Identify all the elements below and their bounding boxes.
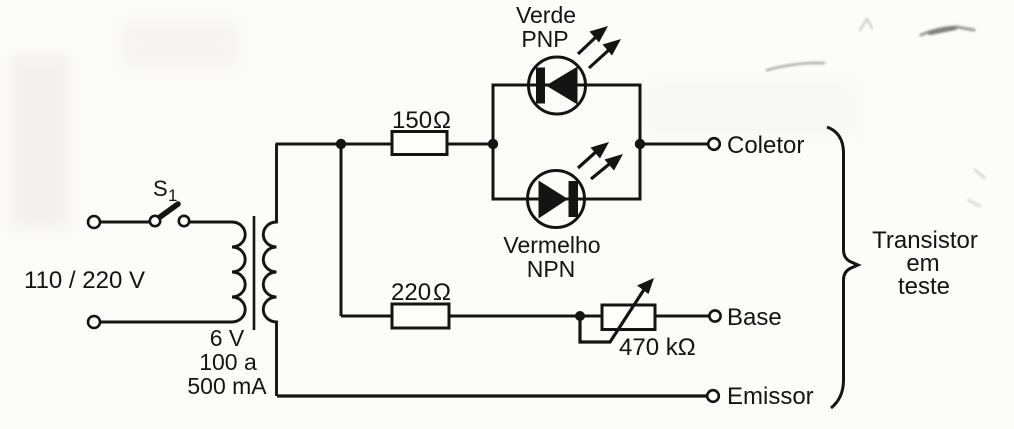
label Transistor em teste (872, 227, 978, 300)
bleed-through smudge 2 (767, 63, 824, 70)
resistor 220 ohm (392, 304, 449, 328)
LED D1 (Verde) circle (529, 57, 586, 114)
svg-text:PNP: PNP (521, 26, 568, 52)
label Vermelho NPN (503, 232, 600, 282)
terminal Base (709, 310, 720, 321)
svg-text:150Ω: 150Ω (392, 107, 451, 134)
wire from bottom-left terminal to transformer primary bottom (100, 321, 232, 324)
svg-text:Vermelho: Vermelho (503, 232, 600, 258)
svg-text:500 mA: 500 mA (187, 373, 267, 399)
wire from top-left terminal to switch (100, 221, 150, 224)
label S1 (153, 176, 177, 205)
svg-text:S: S (153, 176, 168, 201)
LED D2 anode bar (569, 181, 579, 217)
faint paper shading top-left (10, 20, 860, 230)
node junction on top rail (336, 139, 346, 149)
svg-text:6 V: 6 V (210, 325, 245, 351)
brace Transistor em teste (827, 127, 858, 408)
terminal Emissor (707, 390, 719, 402)
svg-text:Verde: Verde (516, 2, 576, 28)
LED D2 light arrow 2 (591, 154, 623, 179)
wire LED parallel branch right vertical (639, 85, 642, 199)
rheostat arrowhead (637, 278, 654, 294)
terminal Coletor (708, 138, 720, 150)
wire top rail from transformer to 150 ohm resistor (276, 143, 393, 146)
LED D2 triangle (539, 181, 569, 219)
label Verde PNP (516, 2, 576, 52)
wire top LED branch horizontal (492, 84, 642, 87)
label 6 V 100 a 500 mA (187, 325, 267, 399)
wire vertical branch from node to 220 ohm branch (340, 144, 343, 316)
LED D1 light arrow 1 (578, 26, 608, 54)
node junction before rheostat (575, 311, 585, 321)
wire from 150 ohm resistor to LED branch (447, 143, 493, 146)
svg-text:220Ω: 220Ω (391, 279, 451, 306)
wire bottom rail to Emissor terminal (277, 394, 707, 397)
bleed-through smudge 1 (921, 27, 974, 35)
svg-text:NPN: NPN (527, 256, 576, 282)
svg-text:Base: Base (727, 304, 782, 331)
svg-text:100 a: 100 a (199, 349, 257, 375)
wire from rheostat to Base terminal (655, 315, 709, 318)
switch S1 (150, 204, 189, 226)
wire from switch to transformer primary top (189, 221, 232, 224)
node junction at LED branch right (635, 139, 645, 149)
transformer T1 primary winding (232, 222, 245, 322)
wire LED parallel branch left vertical (492, 85, 495, 199)
wire from vertical branch to 220 ohm resistor (341, 315, 392, 318)
LED D2 light arrow 1 (578, 142, 609, 168)
svg-text:Emissor: Emissor (727, 383, 814, 410)
bleed-through smudge 3 (860, 19, 872, 30)
svg-text:110 / 220 V: 110 / 220 V (24, 267, 145, 294)
LED D1 light arrow 2 (589, 39, 621, 68)
wire bottom LED branch horizontal (492, 198, 642, 201)
wire from LED branch to Coletor terminal (640, 143, 707, 146)
node junction at LED branch left (488, 139, 498, 149)
rheostat wiper wire (580, 288, 645, 342)
transformer T1 secondary winding + leads up to top rail and down to bottom rail (263, 144, 276, 396)
svg-text:1: 1 (168, 186, 177, 205)
resistor 150 ohm (392, 132, 447, 155)
terminal top-left (88, 216, 100, 228)
rheostat 470k box (602, 305, 655, 330)
LED D1 triangle (546, 67, 578, 105)
LED D2 (Vermelho) circle (528, 171, 585, 228)
svg-text:teste: teste (898, 273, 950, 300)
terminal bottom-left (88, 316, 100, 328)
wire from 220 ohm resistor to rheostat (449, 315, 602, 318)
LED D1 cathode bar (536, 68, 545, 104)
svg-text:Coletor: Coletor (727, 132, 804, 159)
svg-text:470 kΩ: 470 kΩ (619, 334, 696, 361)
transformer T1 core (253, 216, 256, 330)
